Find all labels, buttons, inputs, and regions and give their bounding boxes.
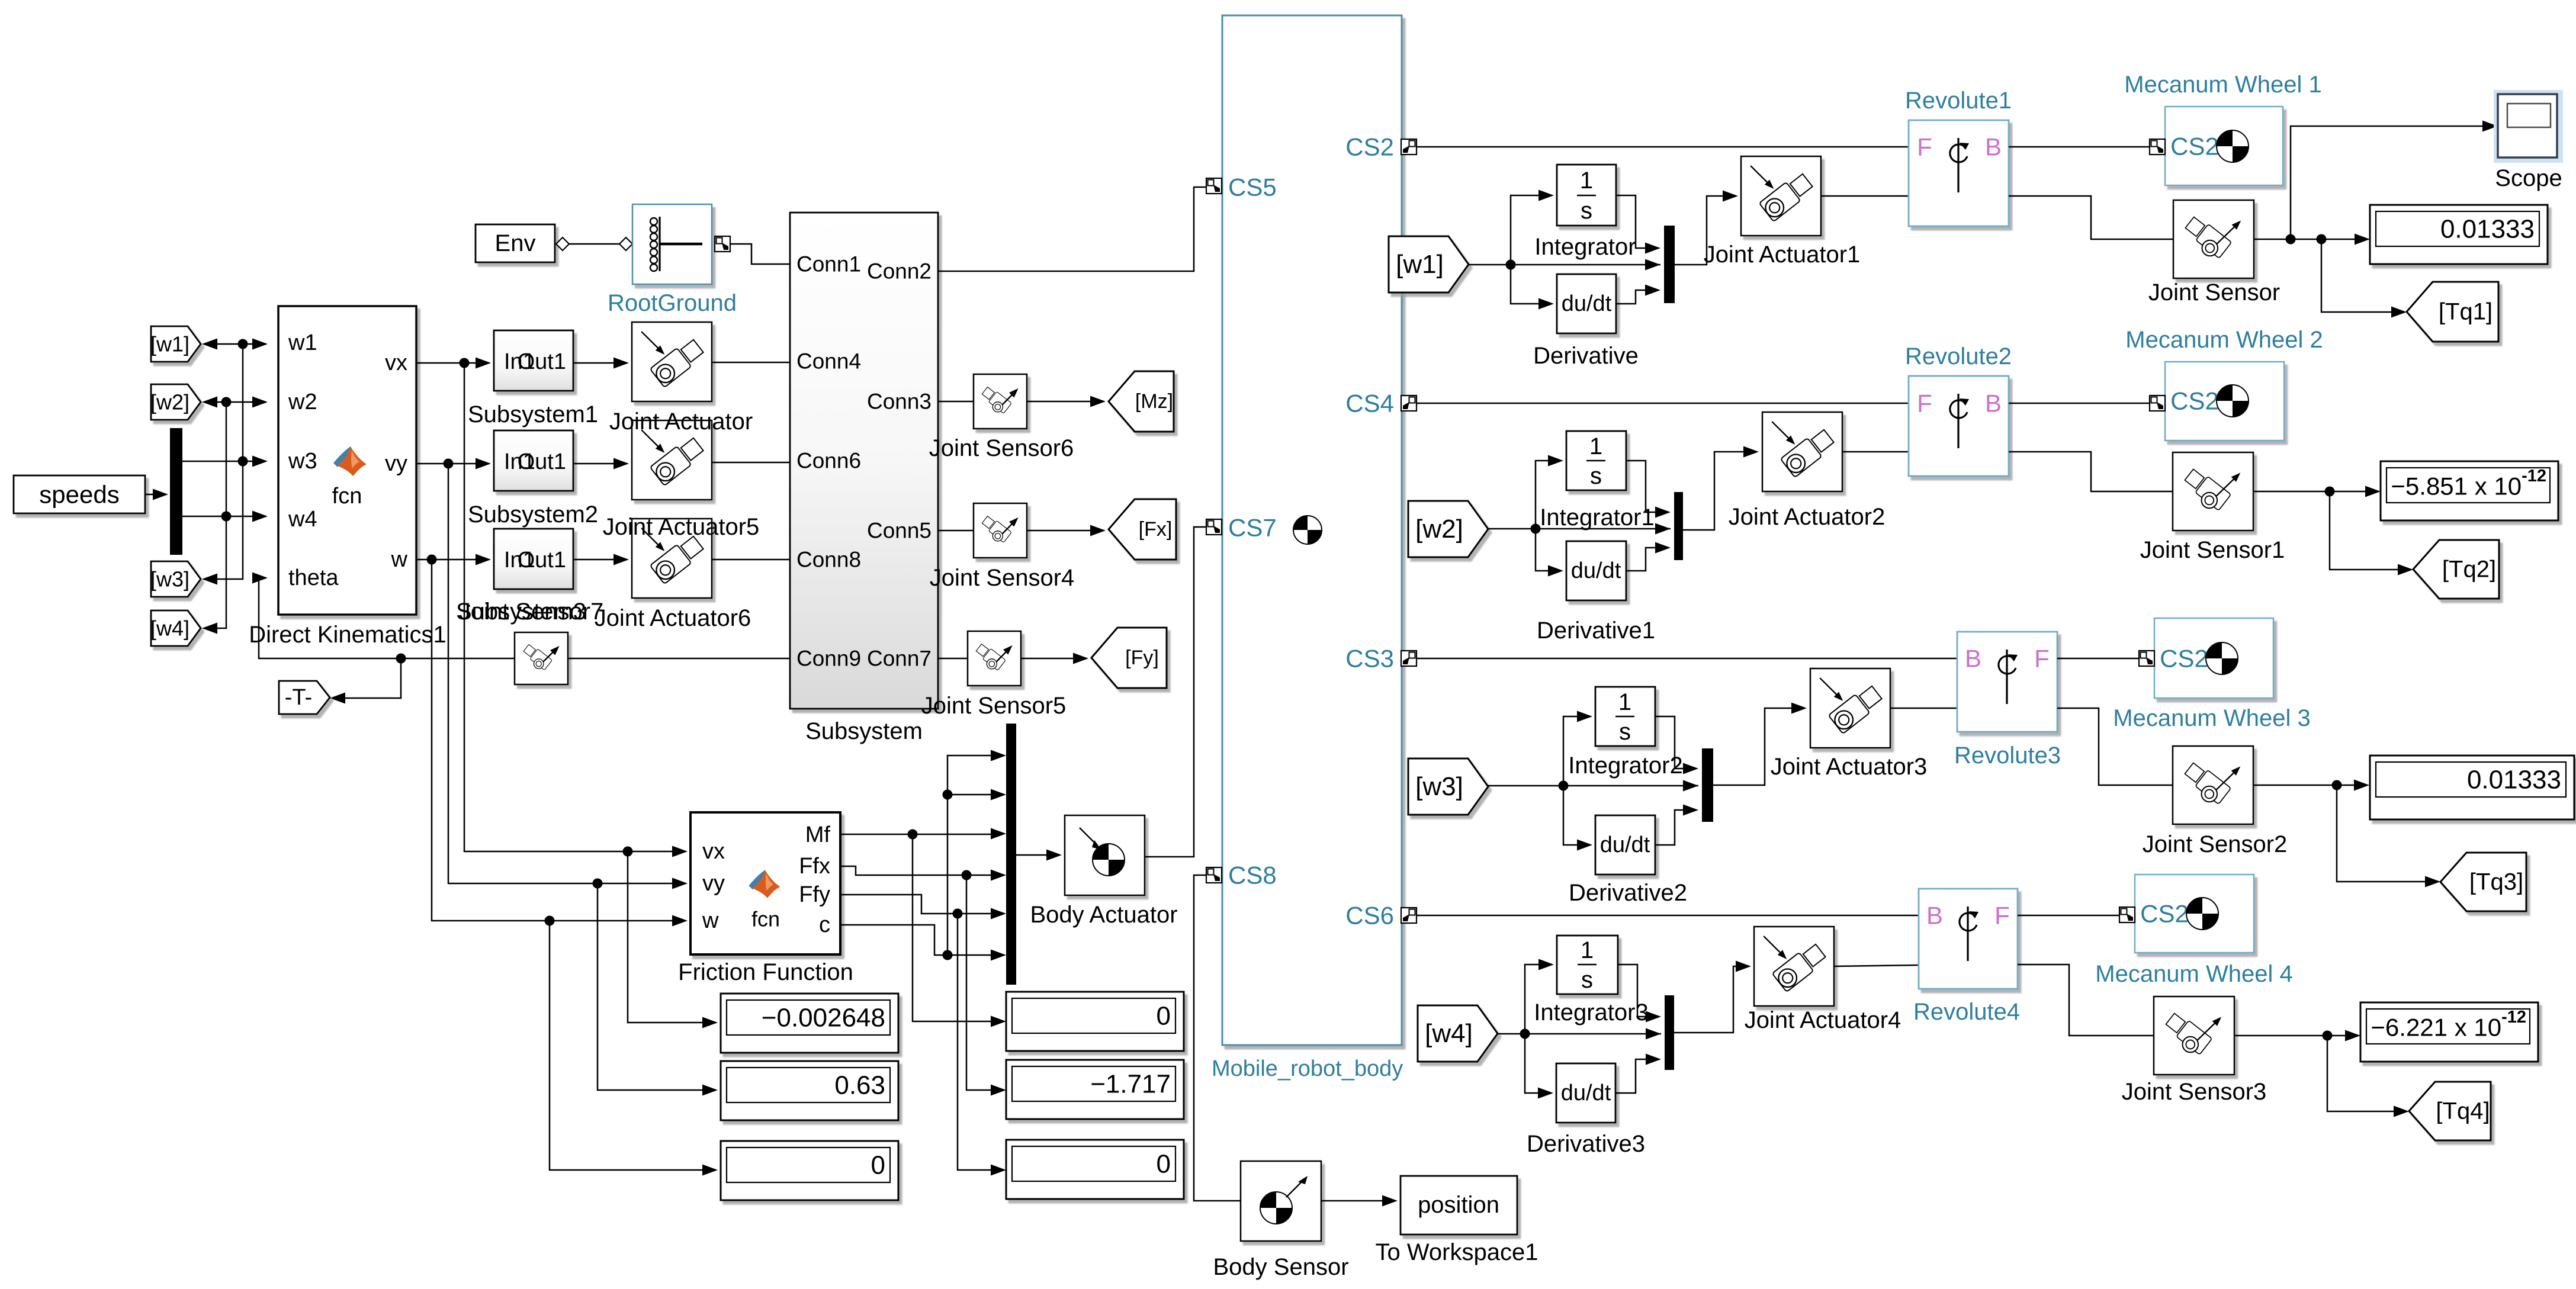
label Joint Actuator4 [1745, 1007, 1902, 1033]
svg-text:CS6: CS6 [1345, 902, 1394, 930]
svg-text:[w2]: [w2] [150, 390, 189, 414]
goto tag [Fx] [1109, 499, 1176, 560]
svg-text:Mecanum Wheel 3: Mecanum Wheel 3 [2113, 705, 2310, 731]
label Joint Actuator [609, 409, 753, 435]
label Joint Actuator5 [603, 514, 760, 540]
label Joint Actuator3 [1771, 754, 1928, 780]
svg-text:[w1]: [w1] [1396, 250, 1444, 279]
wire Ffx to display -1.717 [966, 875, 1006, 1096]
wire RootGround to Conn1 [730, 244, 790, 264]
svg-text:[Tq3]: [Tq3] [2469, 869, 2523, 895]
wire mux to Body Actuator [1016, 850, 1062, 861]
svg-text:w2: w2 [288, 390, 317, 414]
svg-text:Joint Sensor: Joint Sensor [2148, 279, 2280, 306]
goto tag [Tq2] [2413, 540, 2499, 599]
port CS6 (wheel4) [1345, 902, 1417, 930]
wire vx to Subsystem1 [416, 358, 491, 369]
wire to Derivative1 [1536, 529, 1563, 577]
svg-text:[Tq2]: [Tq2] [2442, 557, 2496, 583]
svg-text:Joint Actuator4: Joint Actuator4 [1745, 1007, 1902, 1033]
svg-text:Joint Sensor6: Joint Sensor6 [929, 435, 1074, 461]
svg-text:fcn: fcn [332, 484, 362, 509]
block Integrator2 [1595, 687, 1655, 746]
svg-text:Joint Actuator6: Joint Actuator6 [595, 605, 751, 631]
from tag [w1] [1389, 236, 1469, 292]
svg-text:Joint Sensor1: Joint Sensor1 [2140, 537, 2285, 563]
mux Mux (body signals) [1006, 724, 1016, 985]
label Subsystem2 [468, 502, 598, 528]
arrow mux mid input [1645, 259, 1660, 271]
svg-text:Conn3: Conn3 [867, 390, 932, 414]
demux Demux [170, 428, 182, 555]
wire Joint Actuator5 to Conn6 [711, 462, 790, 464]
svg-text:Joint Actuator3: Joint Actuator3 [1771, 754, 1928, 780]
block Mecanum Wheel 3 [2139, 618, 2273, 698]
svg-text:B: B [1965, 645, 1981, 673]
subsystem Subsystem [790, 213, 938, 709]
wire CS3 to Revolute3 B [1417, 658, 1957, 660]
svg-text:[Tq4]: [Tq4] [2436, 1098, 2490, 1124]
wire Joint Sensor5 to [Fy] [1021, 653, 1088, 664]
port CS5 [1206, 173, 1277, 201]
display 0.01333 (wheel3) [2370, 756, 2574, 819]
svg-text:To Workspace1: To Workspace1 [1376, 1239, 1538, 1265]
svg-text:Subsystem1: Subsystem1 [468, 401, 598, 427]
label Mecanum Wheel 2 [2125, 327, 2323, 353]
goto tag [w1] [150, 326, 201, 362]
svg-text:Subsystem: Subsystem [805, 718, 923, 744]
label Body Sensor [1213, 1254, 1348, 1280]
display 0 (Ffy) [1006, 1140, 1184, 1199]
svg-text:CS3: CS3 [1345, 645, 1394, 673]
label Derivative3 [1527, 1131, 1645, 1157]
label Derivative [1533, 343, 1639, 369]
block Joint Sensor [2173, 200, 2254, 278]
wire to Integrator [1511, 190, 1554, 265]
label Subsystem3 (overlapped) [456, 599, 586, 625]
display 0.63 [721, 1061, 898, 1120]
svg-text:B: B [1985, 390, 2002, 417]
goto tag [Fy] [1091, 628, 1167, 688]
wire [w4] to mux [1498, 1029, 1661, 1039]
wire Derivative2 to mux [1655, 805, 1698, 846]
label Integrator [1534, 234, 1636, 260]
svg-text:vy: vy [385, 451, 407, 476]
wire Subsystem3 to Joint Actuator6 [573, 554, 629, 565]
label Integrator1 [1540, 504, 1654, 531]
svg-text:Integrator: Integrator [1534, 234, 1636, 260]
svg-text:−1.717: −1.717 [1090, 1070, 1171, 1099]
wire Joint Sensor2 to display [2253, 780, 2369, 791]
block Revolute4 [1919, 889, 2018, 989]
svg-text:w1: w1 [288, 330, 317, 355]
block Joint Sensor6 icon [974, 374, 1027, 429]
wire Joint Sensor6 to [Mz] [1027, 396, 1106, 407]
wire Subsystem1 to Joint Actuator [573, 358, 629, 369]
label Joint Actuator1 [1704, 242, 1861, 268]
wire to Derivative3 [1525, 1034, 1553, 1099]
svg-text:0.01333: 0.01333 [2467, 766, 2561, 795]
wire Revolute3 to Joint Sensor2 [2057, 708, 2173, 785]
svg-text:[w1]: [w1] [150, 332, 189, 356]
label Derivative1 [1537, 618, 1655, 644]
svg-text:Conn1: Conn1 [796, 252, 861, 277]
svg-text:-T-: -T- [285, 685, 312, 710]
block Integrator [1557, 165, 1616, 226]
label Joint Sensor6 [929, 435, 1074, 461]
svg-text:F: F [1917, 390, 1932, 417]
svg-text:CS2: CS2 [1345, 133, 1394, 161]
block Revolute1 [1909, 120, 2009, 226]
mux Mux2 [1674, 492, 1683, 560]
wire to [Tq2] [2330, 491, 2413, 576]
svg-text:B: B [1926, 902, 1943, 930]
label Joint Actuator2 [1729, 504, 1886, 530]
svg-text:Conn2: Conn2 [867, 259, 932, 284]
arrow mux2 mid input [1655, 523, 1671, 535]
wire Revolute1 B to Mecanum Wheel 1 [2009, 146, 2150, 148]
block Revolute3 [1957, 632, 2057, 732]
wire Joint Sensor1 to display [2253, 486, 2381, 497]
svg-text:vx: vx [702, 839, 725, 864]
wire Joint Actuator6 to Conn8 [711, 559, 790, 561]
svg-text:s: s [1590, 463, 1602, 489]
wire to [Tq4] [2327, 1036, 2409, 1117]
label Friction Function [678, 959, 853, 985]
svg-text:[Mz]: [Mz] [1135, 390, 1173, 413]
svg-text:CS7: CS7 [1228, 514, 1277, 542]
label Mecanum Wheel 3 [2113, 705, 2310, 731]
svg-text:Joint Sensor4: Joint Sensor4 [930, 565, 1075, 591]
svg-text:1: 1 [1618, 689, 1631, 715]
svg-text:Revolute3: Revolute3 [1954, 742, 2061, 769]
wire Revolute3 F to Mecanum Wheel 3 [2057, 658, 2139, 660]
wire to -T- tag [330, 658, 401, 704]
svg-text:vx: vx [385, 351, 407, 375]
block Revolute2 [1909, 376, 2009, 476]
mux Mux4 [1665, 995, 1674, 1070]
svg-text:Direct Kinematics1: Direct Kinematics1 [249, 622, 446, 648]
label Joint Sensor4 [930, 565, 1075, 591]
svg-text:Revolute2: Revolute2 [1905, 343, 2012, 369]
svg-text:w: w [702, 908, 719, 933]
block position To Workspace1 [1401, 1176, 1517, 1235]
subsystem Subsystem3 [494, 529, 573, 589]
svg-text:[Fy]: [Fy] [1125, 647, 1159, 669]
svg-text:CS4: CS4 [1345, 390, 1394, 417]
block Joint Sensor3 [2154, 997, 2234, 1075]
svg-text:Scope: Scope [2495, 165, 2562, 191]
svg-text:s: s [1581, 967, 1593, 993]
wire Body Actuator to CS7 [1145, 527, 1207, 857]
wire mux to Joint Actuator4 [1674, 961, 1751, 1033]
svg-text:CS2: CS2 [2160, 645, 2208, 673]
block Joint Actuator3 [1810, 668, 1890, 748]
from tag [w4] [1418, 1005, 1498, 1062]
label Revolute4 [1913, 999, 2020, 1025]
wire Body Sensor to position [1321, 1195, 1398, 1207]
label Mobile_robot_body [1212, 1056, 1403, 1081]
svg-text:Joint Sensor3: Joint Sensor3 [2122, 1079, 2267, 1105]
wire Revolute2 B to Mecanum Wheel 2 [2009, 403, 2150, 404]
display -1.717 [1006, 1060, 1184, 1119]
block Derivative [1557, 274, 1616, 333]
wire Subsystem2 to Joint Actuator5 [573, 458, 629, 470]
wire mux to Joint Actuator2 [1683, 446, 1759, 531]
block Joint Actuator [632, 322, 712, 401]
svg-text:Ffy: Ffy [799, 882, 830, 907]
svg-text:0.01333: 0.01333 [2440, 215, 2535, 244]
block Joint Actuator6 [632, 519, 712, 598]
block RootGround [632, 204, 712, 284]
block Body Sensor [1241, 1161, 1321, 1241]
wire w2 line [202, 397, 268, 408]
svg-text:0: 0 [1157, 1150, 1171, 1179]
svg-text:Joint Sensor2: Joint Sensor2 [2143, 831, 2288, 857]
svg-text:CS5: CS5 [1228, 173, 1277, 201]
svg-text:0: 0 [871, 1151, 885, 1180]
wire Revolute2 to Joint Sensor1 [2009, 452, 2173, 491]
svg-text:Conn5: Conn5 [867, 519, 932, 543]
wire w riser to Friction [432, 560, 688, 927]
svg-text:Body Actuator: Body Actuator [1030, 902, 1177, 928]
svg-text:Joint Actuator2: Joint Actuator2 [1729, 504, 1886, 530]
label Joint Sensor2 [2143, 831, 2288, 857]
wire c riser to mux input1 [943, 750, 1007, 956]
wire to Scope [2291, 121, 2498, 240]
svg-text:0: 0 [1157, 1002, 1171, 1031]
goto tag -T- [279, 681, 330, 714]
svg-text:Friction Function: Friction Function [678, 959, 853, 985]
wire to [Tq1] [2321, 239, 2407, 318]
label Subsystem [805, 718, 923, 744]
svg-text:−0.002648: −0.002648 [762, 1004, 885, 1033]
svg-text:Joint Actuator: Joint Actuator [609, 409, 753, 435]
port icon RootGround output [715, 236, 730, 252]
block Integrator1 [1566, 431, 1626, 490]
svg-text:speeds: speeds [39, 481, 119, 509]
svg-text:Body Sensor: Body Sensor [1213, 1254, 1348, 1280]
wire vx riser to Friction [464, 363, 688, 857]
block Env [476, 224, 555, 262]
svg-text:Ffx: Ffx [799, 854, 830, 879]
block Joint Sensor4 icon [974, 503, 1027, 558]
wire riser to [w4] [202, 402, 226, 634]
label Derivative2 [1569, 880, 1687, 906]
from tag [w3] [1408, 758, 1488, 815]
wire Conn7 to Joint Sensor5 [938, 658, 968, 660]
label Mecanum Wheel 1 [2124, 72, 2321, 98]
wire vy to Subsystem2 [416, 458, 491, 470]
wire Joint Sensor3 to display [2234, 1030, 2360, 1042]
wire Mf to display 0 [913, 834, 1006, 1027]
port CS7 [1206, 514, 1277, 542]
wire to Integrator2 [1563, 711, 1592, 786]
wire Revolute1 to Joint Sensor [2009, 196, 2173, 239]
wire Ffy to display 0 [958, 914, 1006, 1176]
arrow mux3 mid input [1683, 780, 1698, 792]
block Joint Sensor7 icon [515, 632, 568, 684]
block Joint Sensor1 [2173, 452, 2253, 531]
svg-text:Joint Actuator5: Joint Actuator5 [603, 514, 760, 540]
svg-text:1: 1 [1581, 937, 1594, 963]
wire w1 line [202, 339, 268, 350]
wire Joint Sensor4 to [Fx] [1027, 525, 1106, 536]
wire Ffx to mux input4 [841, 866, 1006, 881]
wire speeds to demux [145, 489, 168, 500]
svg-text:Derivative3: Derivative3 [1527, 1131, 1645, 1157]
svg-text:[Tq1]: [Tq1] [2439, 299, 2493, 325]
wire Env to RootGround [556, 237, 632, 250]
label Revolute2 [1905, 343, 2012, 369]
svg-text:w3: w3 [288, 449, 317, 474]
port CS2 (wheel1) [1345, 133, 1417, 161]
wire riser to [w3] [202, 344, 243, 585]
svg-text:Conn6: Conn6 [796, 449, 861, 473]
svg-text:du/dt: du/dt [1561, 1081, 1611, 1105]
svg-text:Integrator2: Integrator2 [1568, 753, 1682, 779]
svg-text:1: 1 [1580, 168, 1593, 194]
svg-text:Derivative: Derivative [1533, 343, 1639, 369]
wire w to display 0 [550, 921, 718, 1176]
block Derivative1 [1566, 541, 1626, 600]
label Joint Actuator6 [595, 605, 751, 631]
wire to Derivative [1511, 265, 1554, 310]
wire Joint Actuator1 to Revolute1 [1821, 195, 1909, 197]
display 0 (Mf) [1006, 992, 1184, 1051]
wire CS4 to Revolute2 F [1417, 403, 1909, 404]
label Scope [2495, 165, 2562, 191]
svg-text:du/dt: du/dt [1562, 291, 1612, 316]
svg-text:[w4]: [w4] [1425, 1019, 1473, 1048]
label Joint Sensor1 [2140, 537, 2285, 563]
svg-text:Integrator3: Integrator3 [1534, 999, 1648, 1026]
svg-text:du/dt: du/dt [1600, 832, 1650, 857]
block Joint Actuator1 [1741, 156, 1821, 236]
svg-text:Mf: Mf [805, 822, 831, 847]
goto tag [Tq4] [2409, 1082, 2491, 1140]
port CS3 (wheel3) [1345, 645, 1417, 673]
label Revolute3 [1954, 742, 2061, 769]
wire Joint Actuator3 to Revolute3 [1890, 708, 1957, 709]
svg-text:c: c [819, 912, 830, 937]
label Subsystem1 [468, 401, 598, 427]
svg-text:Joint Actuator1: Joint Actuator1 [1704, 242, 1861, 268]
wire vx to display -0.002648 [628, 851, 718, 1028]
goto tag [w4] [150, 610, 201, 646]
block Integrator3 [1557, 936, 1618, 994]
wire Integrator1 to mux [1626, 461, 1671, 518]
wire w to Subsystem3 [416, 554, 491, 565]
wire to Integrator3 [1525, 959, 1554, 1034]
label Mecanum Wheel 4 [2095, 961, 2292, 987]
wire Revolute4 F to Mecanum Wheel 4 [2018, 915, 2119, 917]
goto tag [Tq3] [2440, 853, 2526, 911]
wire demux out1 to w3 input [182, 456, 268, 467]
svg-text:CS8: CS8 [1228, 862, 1277, 889]
svg-text:CS2: CS2 [2170, 387, 2219, 415]
svg-text:w: w [391, 547, 408, 572]
label Integrator3 [1534, 999, 1648, 1026]
svg-text:position: position [1418, 1192, 1499, 1218]
svg-text:Integrator1: Integrator1 [1540, 504, 1654, 531]
port CS8 [1206, 862, 1277, 889]
svg-text:F: F [1994, 902, 2010, 930]
block speeds [14, 475, 145, 513]
svg-text:Derivative2: Derivative2 [1569, 880, 1687, 906]
label Direct Kinematics1 [249, 622, 446, 648]
display -6.221e-12 [2360, 1002, 2538, 1062]
svg-text:RootGround: RootGround [608, 290, 737, 316]
wire Integrator to mux [1616, 195, 1660, 254]
wire Conn2 to CS5 [938, 187, 1206, 271]
goto tag [w3] [150, 561, 201, 597]
svg-text:Conn4: Conn4 [796, 349, 861, 374]
svg-text:s: s [1581, 198, 1592, 224]
label Integrator2 [1568, 753, 1682, 779]
wire CS2 to Revolute1 F [1417, 146, 1909, 148]
wire Joint Actuator to Conn4 [711, 362, 790, 364]
block Joint Sensor2 [2173, 746, 2253, 824]
block Mecanum Wheel 4 [2119, 875, 2254, 953]
svg-text:Mobile_robot_body: Mobile_robot_body [1212, 1056, 1403, 1081]
wire Ffy to mux input5 [841, 895, 1006, 920]
block Joint Actuator2 [1762, 412, 1842, 491]
svg-text:[w3]: [w3] [1415, 772, 1463, 801]
svg-text:Env: Env [495, 230, 536, 256]
display 0.01333 (wheel1) [2370, 205, 2548, 264]
wire Joint Actuator4 to Revolute4 [1833, 965, 1919, 966]
block Derivative2 [1595, 815, 1655, 875]
goto tag [Tq1] [2407, 282, 2498, 342]
wire Joint Sensor to display [2254, 234, 2370, 245]
block Scope [2494, 90, 2563, 163]
label Joint Sensor [2148, 279, 2280, 306]
wire c to mux input6 [841, 925, 1006, 961]
display -0.002648 [721, 994, 898, 1053]
port CS4 (wheel2) [1345, 390, 1417, 417]
wire to Integrator1 [1536, 455, 1563, 529]
wire to [Tq3] [2337, 785, 2440, 888]
wire Revolute4 to Joint Sensor3 [2018, 965, 2154, 1036]
svg-text:[w3]: [w3] [150, 567, 189, 592]
svg-text:w4: w4 [288, 507, 317, 532]
svg-text:CS2: CS2 [2170, 133, 2219, 160]
svg-text:Mecanum Wheel 2: Mecanum Wheel 2 [2125, 327, 2323, 353]
subsystem Friction Function [690, 812, 840, 954]
wire [w3] to mux [1488, 781, 1698, 791]
svg-text:Revolute4: Revolute4 [1913, 999, 2020, 1025]
label Revolute1 [1905, 88, 2012, 114]
mux Mux1 [1664, 226, 1675, 303]
svg-text:Out1: Out1 [518, 449, 566, 474]
block Joint Actuator4 [1754, 927, 1834, 1006]
svg-text:Subsystem2: Subsystem2 [468, 502, 598, 528]
svg-text:[w2]: [w2] [1415, 515, 1463, 544]
subsystem Subsystem2 [494, 430, 573, 491]
svg-text:du/dt: du/dt [1571, 558, 1621, 583]
svg-text:Joint Sensor7: Joint Sensor7 [459, 599, 604, 625]
label Body Actuator [1030, 902, 1177, 928]
svg-text:Derivative1: Derivative1 [1537, 618, 1655, 644]
svg-text:Joint Sensor5: Joint Sensor5 [921, 693, 1067, 719]
svg-text:Mecanum Wheel 1: Mecanum Wheel 1 [2124, 72, 2321, 98]
svg-text:CS2: CS2 [2140, 900, 2189, 928]
label RootGround [608, 290, 737, 316]
block Body Actuator [1065, 815, 1145, 895]
svg-text:Out1: Out1 [518, 548, 566, 573]
svg-text:Out1: Out1 [518, 349, 566, 374]
